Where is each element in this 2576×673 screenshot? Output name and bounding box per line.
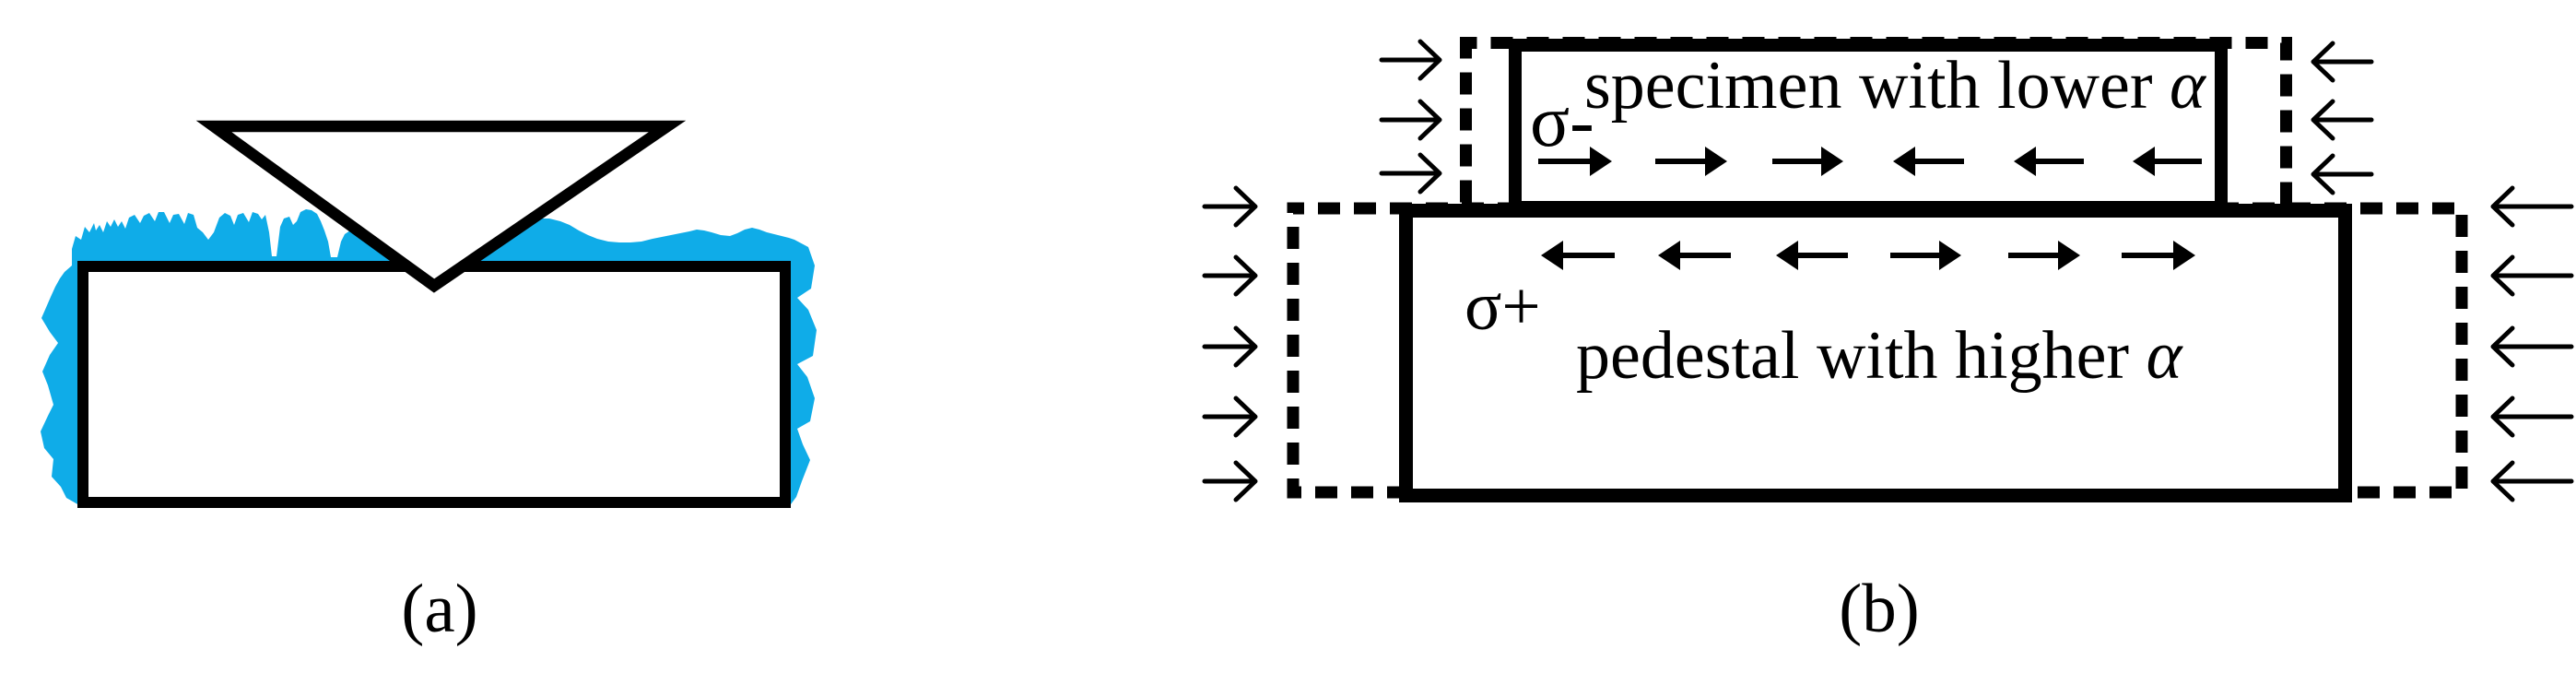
internal stress arrows in specimen (solid heads), y=175 [1538, 147, 2202, 176]
arrow left 4 [1893, 147, 1964, 176]
right compression arrows (5, pointing left) [2493, 188, 2571, 500]
internal stress arrows in pedestal (solid heads), y=277 [1541, 241, 2195, 270]
specimen block (b) [1515, 45, 2221, 207]
arrow right 4 [1890, 241, 1961, 270]
left compression arrows (5, pointing right) [1205, 188, 1255, 500]
svg-text:pedestal with higher α: pedestal with higher α [1576, 318, 2184, 394]
svg-text:σ+: σ+ [1464, 268, 1541, 345]
coating blob (blue) around specimen in (a) [41, 209, 817, 505]
arrow right 5 [2008, 241, 2080, 270]
arrow left 3 [1776, 241, 1848, 270]
dashed outline around specimen (b) [1466, 43, 2287, 268]
arrow right 3 [1772, 147, 1843, 176]
top-left compression arrows (3, pointing right) [1382, 41, 1440, 192]
arrow left 5 [2014, 147, 2084, 176]
indenter tip (triangle) [214, 126, 667, 286]
arrow left 1 [1541, 241, 1615, 270]
svg-text:(b): (b) [1839, 571, 1919, 647]
arrow right 1 [1538, 147, 1612, 176]
dashed outline around pedestal (b) [1293, 208, 2462, 492]
svg-text:specimen with lower α: specimen with lower α [1584, 48, 2207, 124]
external compression arrows, thin open heads [1205, 41, 2571, 500]
svg-text:(a): (a) [401, 571, 477, 647]
pedestal block (b) [1406, 211, 2346, 496]
arrow right 2 [1655, 147, 1727, 176]
arrow left 2 [1658, 241, 1731, 270]
arrow left 6 [2133, 147, 2202, 176]
pedestal block (a) [83, 266, 785, 502]
top-right compression arrows (3, pointing left) [2313, 43, 2371, 193]
arrow right 6 [2122, 241, 2195, 270]
